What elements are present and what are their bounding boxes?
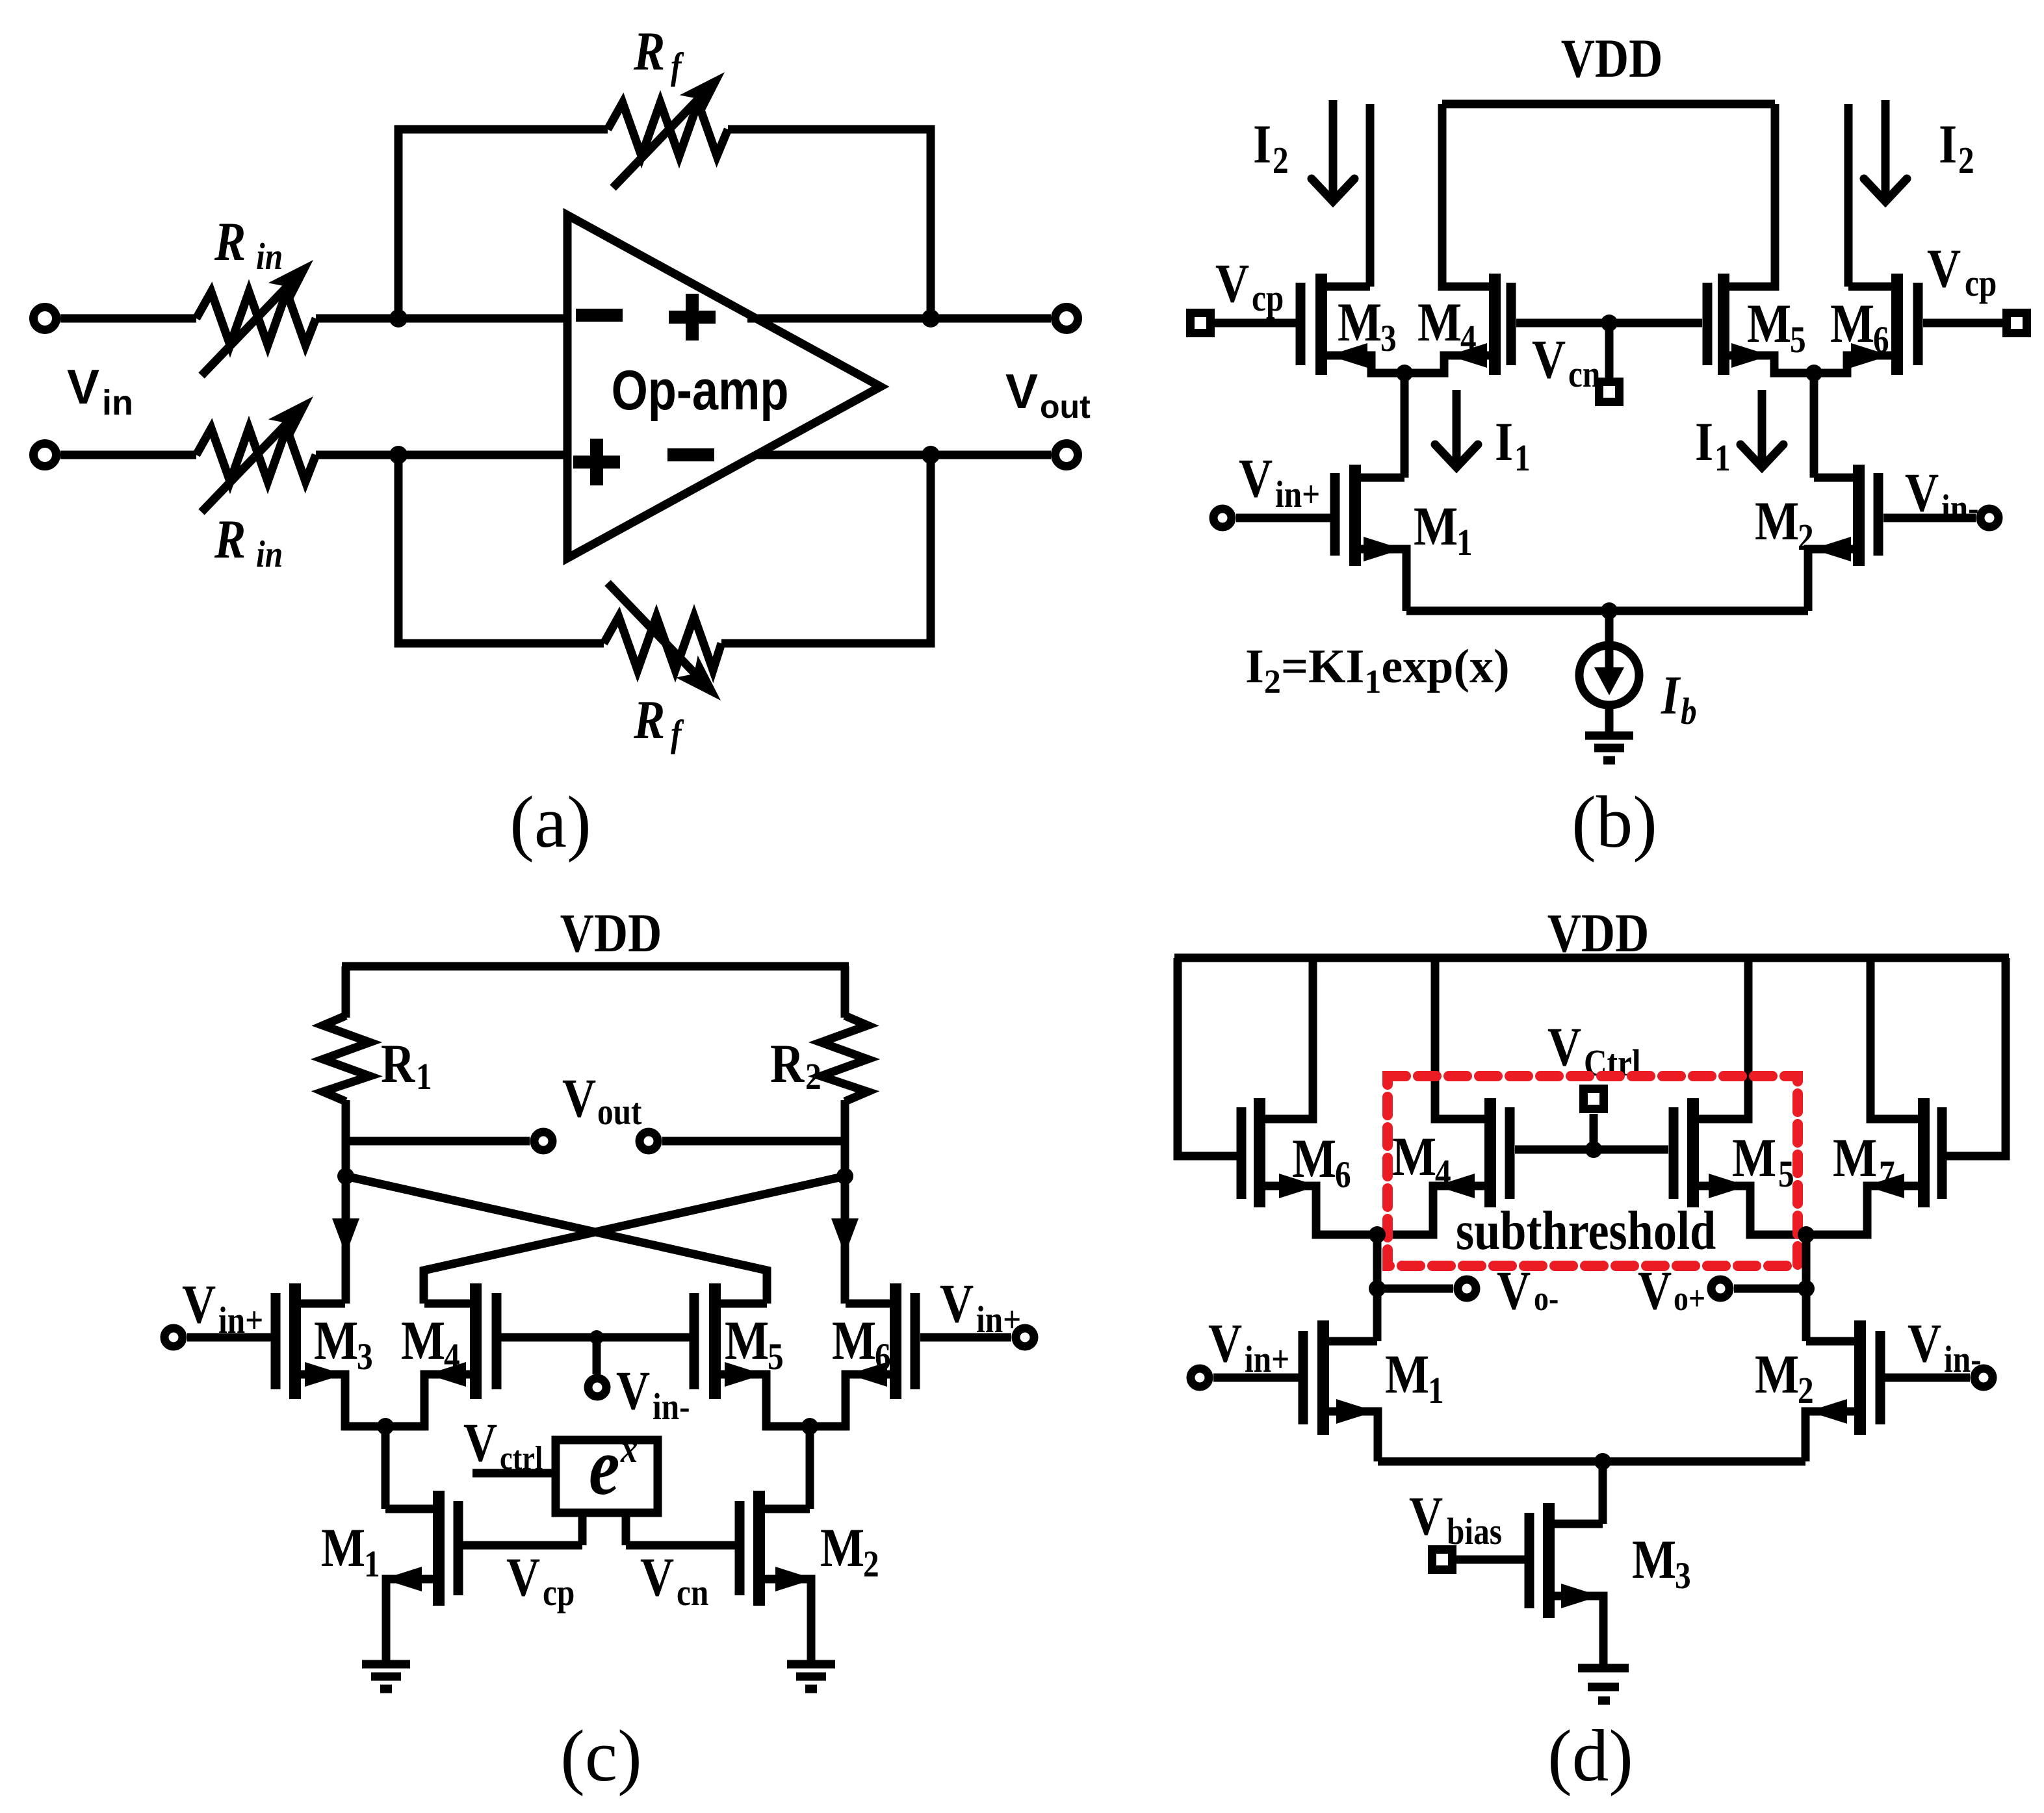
wire R1 to M3 drain xyxy=(342,1100,350,1304)
svg-text:M: M xyxy=(1755,491,1799,552)
svg-text:in: in xyxy=(256,533,283,575)
node tail junction (b) xyxy=(1601,602,1618,619)
svg-text:V: V xyxy=(1208,1313,1242,1374)
wire noninverting input xyxy=(316,451,567,459)
wire feedback bottom-left xyxy=(398,455,604,643)
wire M3/M4 source to M1 drain xyxy=(1401,373,1409,478)
svg-text:3: 3 xyxy=(1380,317,1397,359)
terminal Vin- (b) xyxy=(1980,509,1999,527)
svg-text:6: 6 xyxy=(1335,1153,1351,1196)
svg-text:6: 6 xyxy=(1873,318,1889,361)
node M3/M4 source junction (c) xyxy=(377,1418,394,1435)
svg-text:2: 2 xyxy=(1273,139,1289,181)
svg-text:b: b xyxy=(1681,690,1697,732)
svg-text:M: M xyxy=(1338,292,1382,354)
transistor M4 (d) xyxy=(1505,1107,1515,1199)
wire exp block output left xyxy=(578,1513,587,1545)
wire output+ xyxy=(747,315,1051,323)
ground left (c) xyxy=(362,1660,410,1669)
transistor M5 (c) xyxy=(690,1293,699,1389)
svg-text:5: 5 xyxy=(1790,318,1806,361)
svg-text:(d): (d) xyxy=(1547,1716,1633,1797)
svg-text:4: 4 xyxy=(1460,317,1477,359)
svg-text:6: 6 xyxy=(875,1335,891,1378)
svg-text:M: M xyxy=(321,1518,365,1579)
terminal input+ node xyxy=(34,307,57,330)
node Vcn junction xyxy=(1601,315,1618,331)
svg-text:V: V xyxy=(1409,1486,1443,1547)
svg-text:M: M xyxy=(832,1311,876,1372)
wire VCtrl gate line xyxy=(1515,1146,1668,1154)
op-amp U1 plus (top-right) xyxy=(669,311,716,324)
svg-text:V: V xyxy=(1532,329,1566,391)
resistor R2 xyxy=(821,1016,868,1101)
svg-text:M: M xyxy=(820,1518,864,1579)
svg-text:ctrl: ctrl xyxy=(500,1440,543,1477)
node Vin- junction (c) xyxy=(589,1330,604,1344)
wire VDD right corner xyxy=(841,966,849,1018)
node B junction bottom-left xyxy=(389,446,408,464)
terminal input- node xyxy=(34,444,57,467)
current arrow right (c) xyxy=(831,1218,859,1255)
svg-text:o-: o- xyxy=(1534,1279,1559,1318)
svg-text:(c): (c) xyxy=(560,1716,641,1797)
resistor Rin (top) variable arrow xyxy=(201,273,300,376)
terminal VCtrl xyxy=(1590,1114,1598,1150)
wire Vo+ tap xyxy=(1734,1285,1806,1293)
wire Ib to ground xyxy=(1605,705,1614,733)
svg-text:I: I xyxy=(1695,412,1713,473)
svg-text:f: f xyxy=(671,712,684,754)
svg-text:1: 1 xyxy=(416,1055,432,1098)
terminal Vout right xyxy=(640,1132,658,1150)
svg-text:V: V xyxy=(1547,1017,1581,1078)
svg-text:out: out xyxy=(597,1090,642,1133)
op-amp U1 minus (top-left) xyxy=(576,309,623,322)
terminal Vin+ (b) xyxy=(1213,509,1232,527)
node R1 junction xyxy=(337,1168,354,1185)
svg-text:cn: cn xyxy=(677,1571,708,1614)
current arrow left (c) xyxy=(332,1218,359,1255)
wire Vctrl lead xyxy=(472,1469,552,1478)
svg-text:VDD: VDD xyxy=(560,903,662,964)
svg-text:in: in xyxy=(256,235,283,277)
transistor M7 (d) xyxy=(1937,1107,1947,1199)
wire Vout left xyxy=(346,1137,530,1146)
terminal Vcp right xyxy=(2007,313,2027,333)
svg-text:V: V xyxy=(506,1547,540,1608)
resistor Rf (top) variable arrow xyxy=(613,85,712,188)
node A junction top-left xyxy=(389,309,408,328)
wire input- lead xyxy=(60,451,196,459)
ground (d) xyxy=(1578,1664,1629,1673)
terminal Vin+ (d) xyxy=(1191,1369,1209,1387)
node M5/M6 source junction (c) xyxy=(801,1418,818,1435)
svg-text:3: 3 xyxy=(1675,1554,1691,1597)
wire exp block output right xyxy=(622,1513,630,1545)
svg-text:f: f xyxy=(671,45,684,87)
op-amp U1 triangle xyxy=(567,215,881,558)
terminal Vcp left xyxy=(1191,313,1211,333)
wire feedback top-right xyxy=(728,129,931,318)
svg-text:1: 1 xyxy=(364,1543,380,1585)
svg-text:bias: bias xyxy=(1447,1510,1502,1552)
svg-text:2: 2 xyxy=(1798,516,1814,558)
transistor M6 (c) xyxy=(911,1293,920,1389)
ground right (c) xyxy=(787,1660,835,1669)
transistor M6 (d) xyxy=(1237,1107,1247,1199)
wire right junction to M2 drain xyxy=(806,1426,814,1509)
svg-text:out: out xyxy=(1040,389,1091,425)
svg-text:in+: in+ xyxy=(218,1299,263,1341)
svg-text:V: V xyxy=(1239,448,1273,509)
current arrow I1 left xyxy=(1453,390,1461,465)
svg-text:R: R xyxy=(770,1034,805,1095)
wire Vin- stub xyxy=(593,1337,601,1374)
transistor M4 (c) xyxy=(492,1293,502,1389)
transistor M1 (b) xyxy=(1330,473,1340,556)
terminal Vo+ xyxy=(1711,1279,1729,1298)
wire left junction to M1 drain xyxy=(382,1426,390,1509)
wire inverting input xyxy=(316,315,567,323)
current source Ib xyxy=(1579,645,1639,705)
wire output- xyxy=(758,451,1051,459)
current arrow I2 right xyxy=(1882,100,1890,199)
terminal Vin+ right (c) xyxy=(1016,1328,1034,1346)
svg-text:M: M xyxy=(1385,1344,1429,1406)
svg-text:R: R xyxy=(633,690,665,751)
wire tail to current source xyxy=(1605,611,1614,650)
node M3/M4 source junction xyxy=(1396,365,1413,381)
svg-text:in: in xyxy=(102,383,133,422)
current arrow I1 right xyxy=(1758,390,1766,465)
svg-text:in+: in+ xyxy=(1245,1338,1289,1380)
wire cross-couple left-to-right xyxy=(346,1176,767,1304)
svg-text:5: 5 xyxy=(1778,1153,1794,1195)
op-amp U1 minus (bottom-right) xyxy=(667,448,714,461)
svg-text:M: M xyxy=(314,1311,358,1372)
svg-text:V: V xyxy=(182,1274,216,1335)
transistor M1 (d) xyxy=(1299,1331,1308,1424)
svg-text:cp: cp xyxy=(543,1571,575,1614)
svg-text:M: M xyxy=(1833,1128,1877,1189)
svg-text:M: M xyxy=(401,1311,445,1372)
terminal Vbias xyxy=(1432,1550,1453,1570)
terminal Vcn xyxy=(1605,323,1614,381)
wire VDD rail (c) xyxy=(342,962,849,971)
svg-text:M: M xyxy=(1292,1129,1336,1190)
svg-text:2: 2 xyxy=(1798,1369,1814,1411)
svg-text:R: R xyxy=(214,509,246,571)
wire M7 gate loop xyxy=(1947,958,2006,1156)
svg-text:3: 3 xyxy=(357,1335,373,1378)
svg-text:(a): (a) xyxy=(510,782,591,863)
wire Vout right xyxy=(662,1137,845,1146)
svg-text:V: V xyxy=(616,1361,650,1422)
svg-text:cp: cp xyxy=(1965,262,1997,304)
svg-text:4: 4 xyxy=(444,1335,460,1378)
terminal Vin- (d) xyxy=(1974,1369,1993,1387)
svg-text:4: 4 xyxy=(1435,1151,1451,1194)
svg-text:I: I xyxy=(1253,114,1271,175)
terminal Vo- xyxy=(1458,1279,1476,1298)
wire tail to M3 drain xyxy=(1599,1461,1607,1524)
wire M5/M6 source to M2 drain xyxy=(1810,373,1818,478)
wire M4/M5 gate line xyxy=(501,1333,690,1342)
wire M5 drain to VDD xyxy=(1724,104,1775,287)
svg-text:5: 5 xyxy=(768,1335,784,1378)
node D junction bottom-right xyxy=(922,446,940,464)
svg-text:V: V xyxy=(1215,253,1249,315)
svg-text:1: 1 xyxy=(1428,1369,1444,1411)
terminal output- node xyxy=(1055,444,1078,467)
svg-text:V: V xyxy=(640,1547,674,1608)
svg-text:VDD: VDD xyxy=(1561,29,1663,90)
resistor Rin (bottom) zigzag xyxy=(196,428,316,482)
svg-text:1: 1 xyxy=(1514,437,1531,479)
exp block e^x xyxy=(556,1440,658,1513)
node C junction top-right xyxy=(922,309,940,328)
svg-text:R: R xyxy=(633,21,665,83)
subthreshold dashed box xyxy=(1388,1076,1798,1266)
node M5/M6 source junction xyxy=(1805,365,1822,381)
svg-text:R: R xyxy=(381,1034,415,1095)
node tail junction (d) xyxy=(1594,1453,1611,1470)
svg-text:M: M xyxy=(1417,292,1462,354)
svg-text:M: M xyxy=(1632,1530,1676,1591)
svg-text:1: 1 xyxy=(1456,521,1473,563)
svg-text:cn: cn xyxy=(1568,353,1600,395)
wire tail (b) xyxy=(1406,607,1808,615)
svg-text:2: 2 xyxy=(805,1055,821,1098)
node Vo- junction xyxy=(1369,1280,1386,1297)
svg-text:x: x xyxy=(620,1427,638,1471)
wire VDD left corner xyxy=(342,966,350,1018)
svg-text:V: V xyxy=(1927,238,1961,300)
svg-text:I: I xyxy=(1495,412,1513,473)
transistor M2 (d) xyxy=(1876,1331,1885,1424)
svg-text:in-: in- xyxy=(1944,1338,1982,1380)
svg-text:Op-amp: Op-amp xyxy=(612,359,789,421)
svg-text:e: e xyxy=(589,1422,620,1512)
svg-text:V: V xyxy=(1638,1261,1672,1322)
node M6/M4 source junction (d) xyxy=(1369,1226,1386,1243)
transistor M5 xyxy=(1703,283,1713,365)
transistor M3 (d) xyxy=(1525,1513,1534,1608)
svg-text:in+: in+ xyxy=(1275,473,1320,515)
svg-text:in-: in- xyxy=(1941,487,1979,529)
transistor M3 (c) xyxy=(271,1293,281,1389)
terminal Vin+ left (c) xyxy=(164,1328,183,1346)
terminal Vout left xyxy=(534,1132,552,1150)
svg-text:V: V xyxy=(463,1413,497,1474)
wire cross-couple right-to-left xyxy=(424,1176,845,1304)
svg-text:I: I xyxy=(1939,114,1957,175)
svg-text:M: M xyxy=(1747,294,1791,355)
wire tail (d) xyxy=(1378,1458,1805,1466)
wire input+ lead xyxy=(60,315,196,323)
svg-text:M: M xyxy=(1830,294,1874,355)
svg-text:M: M xyxy=(725,1311,769,1372)
resistor Rin (top) zigzag xyxy=(196,292,316,345)
svg-text:V: V xyxy=(1905,463,1939,524)
wire feedback bottom-right xyxy=(721,455,931,643)
terminal Vin- (c) xyxy=(588,1378,606,1396)
svg-text:2: 2 xyxy=(863,1543,879,1585)
transistor M3 xyxy=(1296,283,1306,365)
svg-text:(b): (b) xyxy=(1572,782,1657,863)
svg-text:V: V xyxy=(67,359,99,414)
svg-text:in+: in+ xyxy=(976,1298,1021,1341)
wire VDD rail (b) xyxy=(1442,100,1775,109)
wire M6 gate loop xyxy=(1178,958,1237,1156)
wire feedback top-left xyxy=(398,129,608,318)
wire Vo- tap xyxy=(1377,1285,1453,1293)
svg-text:I: I xyxy=(1661,665,1681,726)
node Vo+ junction xyxy=(1798,1280,1815,1297)
transistor M5 (d) xyxy=(1669,1107,1679,1199)
terminal output+ node xyxy=(1055,307,1078,330)
svg-text:subthreshold: subthreshold xyxy=(1456,1201,1716,1262)
resistor Rf (top) zigzag xyxy=(608,103,728,156)
transistor M2 (b) xyxy=(1874,473,1883,556)
svg-text:V: V xyxy=(562,1068,596,1129)
transistor M6 xyxy=(1913,283,1923,365)
svg-text:M: M xyxy=(1414,496,1458,558)
transistor M1 (c) xyxy=(454,1501,463,1595)
resistor Rin (bottom) variable arrow xyxy=(201,409,300,512)
svg-text:1: 1 xyxy=(1714,437,1731,479)
svg-text:V: V xyxy=(940,1274,974,1335)
wire left junction down to M1 drain xyxy=(1373,1235,1382,1341)
svg-text:I2=KI1exp(x): I2=KI1exp(x) xyxy=(1245,640,1510,701)
wire M4 drain to VDD xyxy=(1442,104,1495,287)
transistor M2 (c) xyxy=(735,1501,745,1595)
svg-text:M: M xyxy=(1755,1344,1799,1406)
svg-text:R: R xyxy=(214,212,246,273)
transistor M4 xyxy=(1507,283,1516,365)
svg-text:cp: cp xyxy=(1252,277,1284,319)
svg-text:M: M xyxy=(1732,1128,1776,1189)
resistor Rf (bottom) zigzag xyxy=(604,617,721,670)
wire right junction down to M2 drain xyxy=(1802,1235,1811,1341)
svg-text:V: V xyxy=(1497,1261,1531,1322)
svg-text:in-: in- xyxy=(653,1385,690,1428)
ground (b) xyxy=(1585,732,1633,740)
node R2 junction xyxy=(836,1168,853,1185)
op-amp U1 plus (bottom-left) xyxy=(573,456,620,469)
wire VDD rail (d) xyxy=(1174,954,2009,962)
svg-text:V: V xyxy=(1908,1313,1941,1374)
node M5/M7 source junction (d) xyxy=(1798,1226,1815,1243)
resistor Rf (bottom) variable arrow xyxy=(608,583,708,687)
wire R2 to M6 drain xyxy=(841,1100,849,1304)
svg-text:2: 2 xyxy=(1958,139,1974,181)
svg-text:V: V xyxy=(1005,364,1038,418)
resistor R1 xyxy=(323,1016,370,1101)
svg-text:7: 7 xyxy=(1879,1153,1895,1195)
node VCtrl junction xyxy=(1585,1141,1602,1158)
current arrow I2 left xyxy=(1329,100,1338,199)
svg-text:M: M xyxy=(1392,1127,1436,1188)
wire Vcn gate line xyxy=(1516,319,1702,328)
svg-text:o+: o+ xyxy=(1674,1279,1705,1318)
